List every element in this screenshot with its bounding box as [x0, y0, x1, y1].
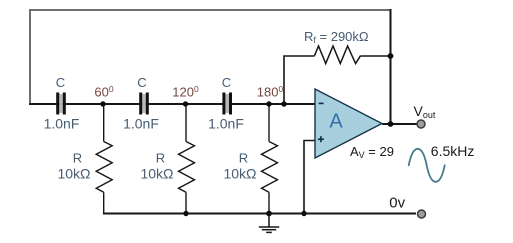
svg-text:C: C — [56, 75, 65, 90]
svg-text:AV = 29: AV = 29 — [350, 144, 394, 160]
svg-text:10kΩ: 10kΩ — [57, 165, 90, 181]
svg-text:10kΩ: 10kΩ — [140, 165, 173, 181]
svg-text:6.5kHz: 6.5kHz — [431, 143, 475, 159]
svg-text:R: R — [156, 151, 165, 166]
svg-text:C: C — [222, 75, 231, 90]
svg-text:R: R — [239, 151, 248, 166]
svg-text:0v: 0v — [389, 195, 405, 212]
svg-text:A: A — [329, 111, 343, 133]
svg-text:C: C — [137, 75, 146, 90]
svg-text:1.0nF: 1.0nF — [208, 116, 244, 132]
svg-text:1.0nF: 1.0nF — [123, 116, 159, 132]
svg-text:10kΩ: 10kΩ — [223, 165, 256, 181]
svg-text:1.0nF: 1.0nF — [44, 116, 80, 132]
svg-text:R: R — [73, 151, 82, 166]
